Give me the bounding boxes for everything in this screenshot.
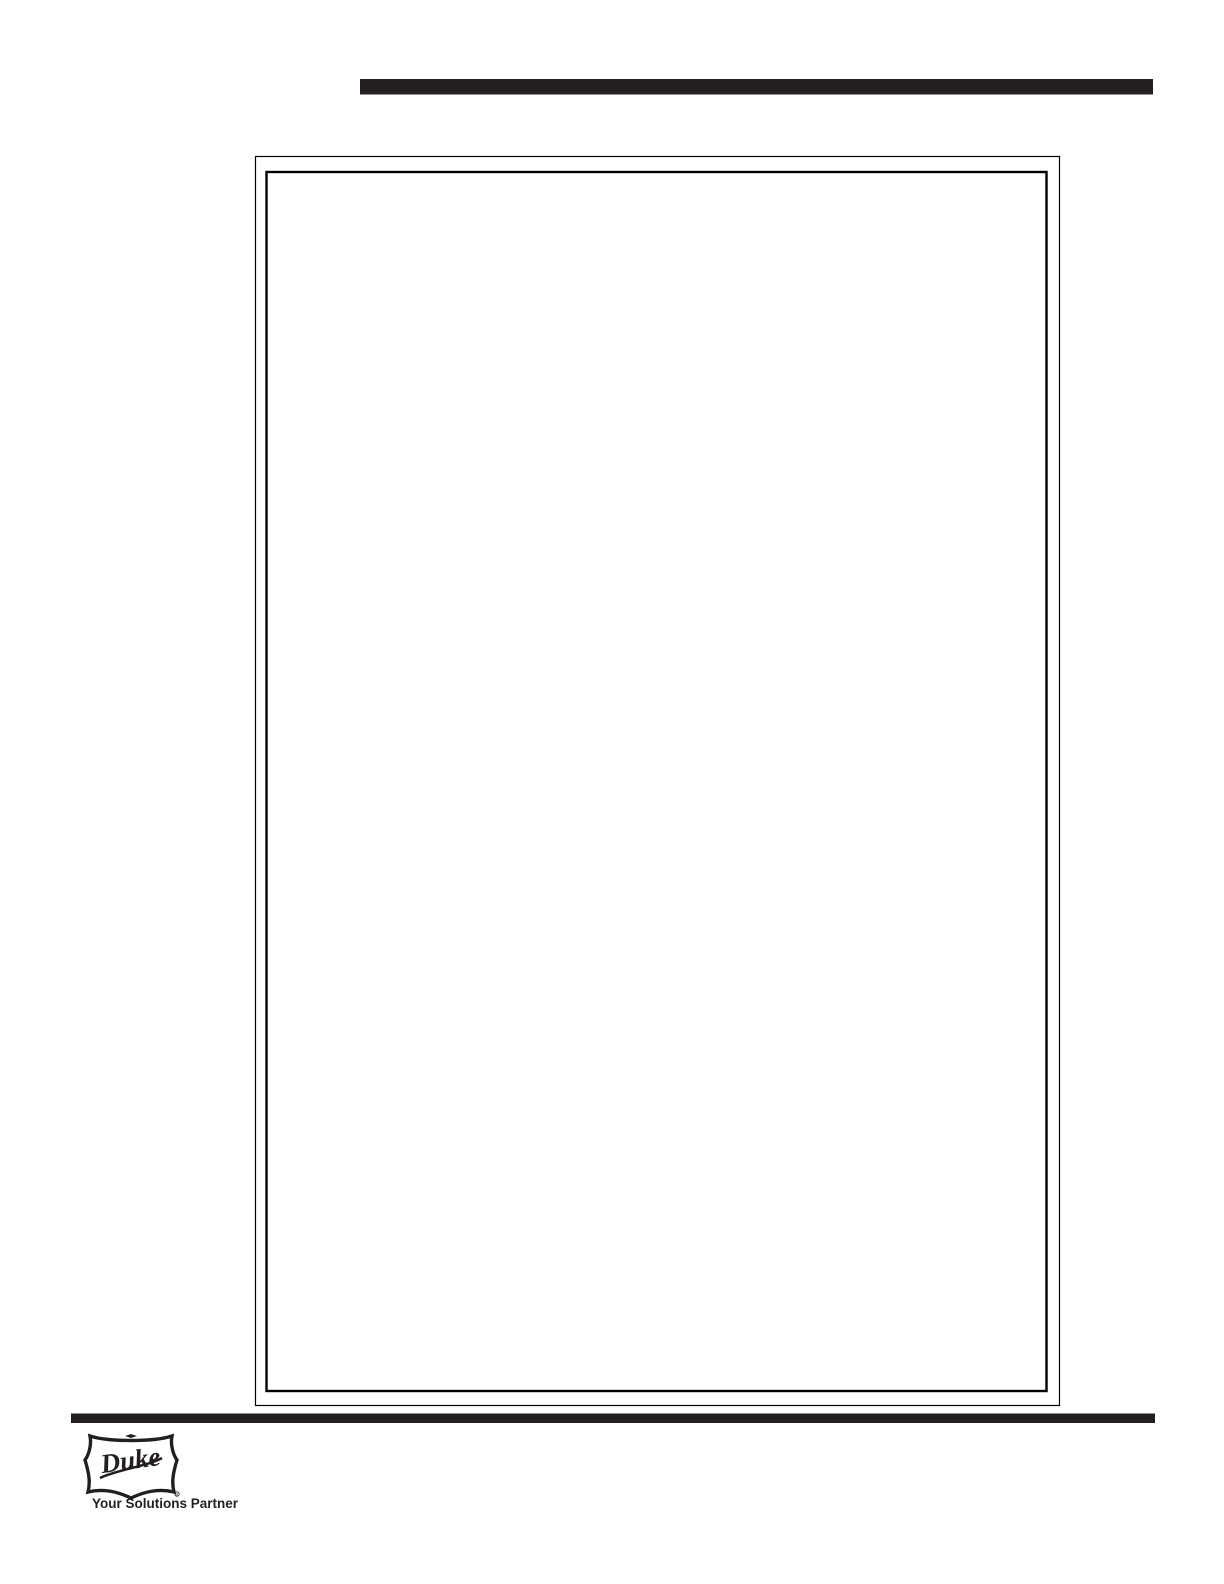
top black title bar: [360, 79, 1153, 95]
Duke logo shield: [85, 1434, 179, 1498]
bottom black bar: [71, 1414, 1155, 1424]
svg-text:Your Solutions Partner: Your Solutions Partner: [92, 1496, 239, 1511]
inner diagram frame: [267, 172, 1047, 1391]
outer diagram frame: [256, 157, 1060, 1406]
